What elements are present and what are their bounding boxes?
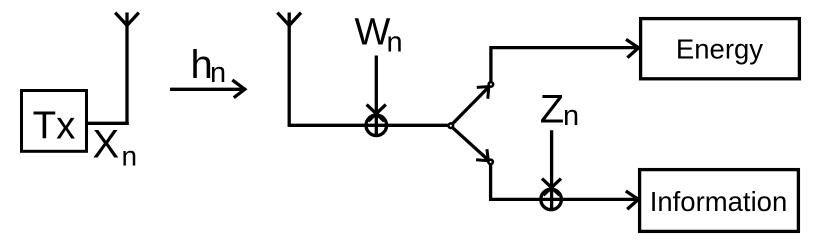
svg-text:W: W xyxy=(355,11,391,53)
switch throw arrow to information contact xyxy=(453,128,489,161)
arrow W_n into summing junction S1 xyxy=(367,56,386,136)
antenna A2 mast xyxy=(288,13,291,127)
arrow Z_n into summing junction S2 xyxy=(542,130,561,209)
label h_n (channel gain) xyxy=(191,43,227,89)
antenna A2 arms xyxy=(277,13,301,26)
information-path contact node xyxy=(488,160,493,165)
svg-text:X: X xyxy=(93,122,120,166)
switch pivot node xyxy=(449,123,454,128)
wire energy contact to Energy block (with arrowhead) xyxy=(491,39,639,82)
wire Tx to antenna A1 xyxy=(87,122,129,125)
block Tx (transmitter) xyxy=(22,91,87,152)
svg-text:n: n xyxy=(387,27,403,59)
block Energy (energy receiver) xyxy=(641,19,800,79)
summing junction S1 (receiver noise adder) xyxy=(366,115,387,136)
antenna A1 mast xyxy=(125,13,128,125)
summing junction S2 (information noise adder) xyxy=(541,189,562,210)
block Information (information receiver) xyxy=(640,170,799,232)
svg-text:n: n xyxy=(122,140,138,171)
label X_n (transmit signal) xyxy=(93,122,138,171)
svg-text:Tx: Tx xyxy=(33,104,76,147)
svg-text:Energy: Energy xyxy=(676,33,763,64)
switch throw arrow to energy contact xyxy=(453,87,489,124)
antenna A1 arms xyxy=(115,13,139,26)
wire antenna A2 to switch node xyxy=(289,124,448,127)
svg-text:n: n xyxy=(210,57,226,89)
wire information contact to summing junction S2 and Information block (with arrowhead) xyxy=(491,164,639,209)
label Z_n (processing noise) xyxy=(540,88,579,132)
svg-text:Z: Z xyxy=(540,88,564,132)
svg-text:Information: Information xyxy=(650,186,788,217)
energy-path contact node xyxy=(489,82,494,87)
channel arrow h_n xyxy=(170,80,245,98)
svg-text:n: n xyxy=(563,100,579,132)
label W_n (antenna noise) xyxy=(355,11,403,58)
